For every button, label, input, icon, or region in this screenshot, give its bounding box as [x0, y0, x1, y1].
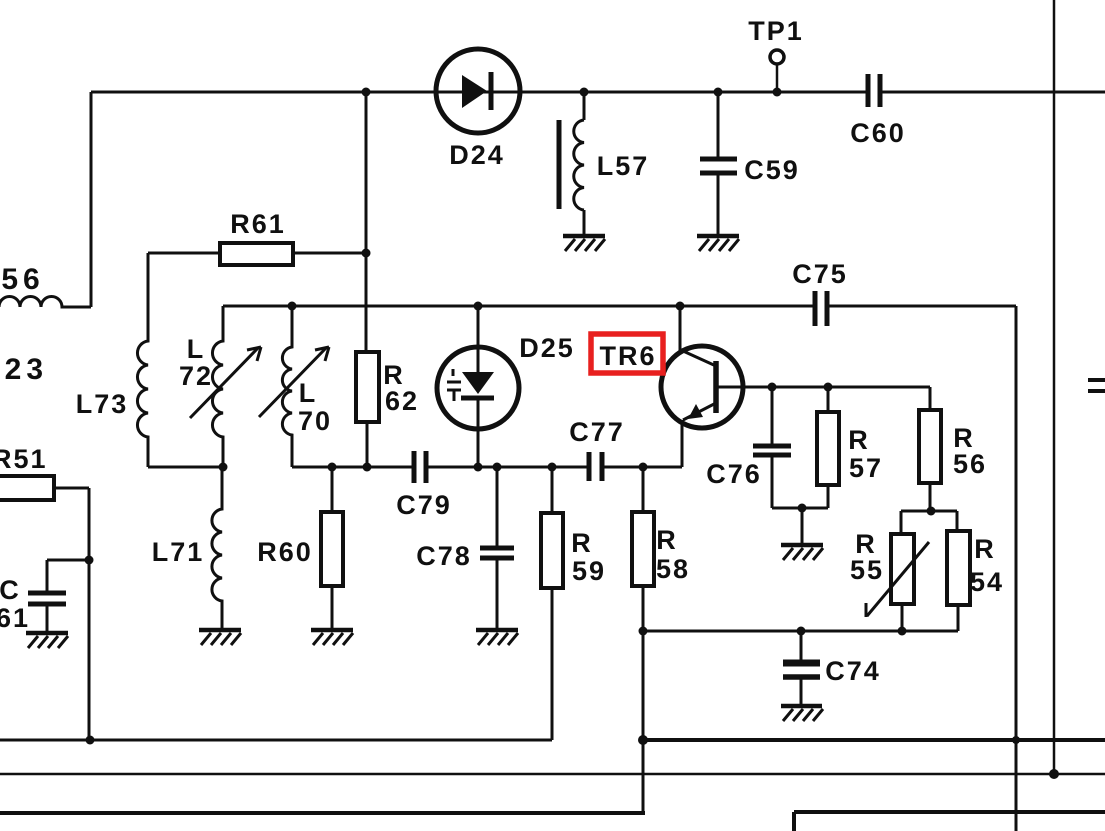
- inductor L71: [212, 467, 222, 628]
- svg-text:57: 57: [849, 453, 883, 483]
- capacitor C79: [414, 451, 426, 483]
- svg-text:C79: C79: [396, 490, 452, 520]
- wire R55 top lead: [900, 511, 903, 534]
- svg-text:D25: D25: [519, 333, 575, 363]
- capacitor C74: [783, 631, 820, 704]
- resistor R61: [220, 243, 293, 265]
- diode D25: [437, 306, 519, 467]
- node tank bottom / L71: [219, 463, 228, 472]
- wire TR6 emitter: [681, 420, 684, 467]
- resistor R59: [541, 513, 563, 588]
- wire R61 right lead: [293, 252, 366, 255]
- node ground stem C76/R57: [798, 504, 807, 513]
- node R60 top: [328, 463, 337, 472]
- node R55 bottom: [898, 627, 907, 636]
- resistor R56: [919, 410, 941, 483]
- node C61 tap: [85, 556, 94, 565]
- wire R51 drop to bottom bus: [88, 488, 91, 740]
- inductor L56: [0, 297, 91, 308]
- capacitor C77: [589, 452, 602, 481]
- wire R55 bottom lead: [901, 604, 904, 631]
- wire R60 bottom lead: [331, 586, 334, 628]
- node TP1 on rail: [773, 88, 782, 97]
- svg-text:L57: L57: [597, 151, 650, 181]
- node R61 right: [362, 249, 371, 258]
- svg-text:55: 55: [850, 555, 884, 585]
- wire R57 top lead: [827, 387, 830, 412]
- wire oscillator top bus left of C75: [223, 305, 815, 308]
- node D25 top: [474, 302, 483, 311]
- svg-text:72: 72: [179, 361, 213, 391]
- wire bottom bus 1 right: [643, 738, 1105, 742]
- svg-text:R60: R60: [257, 537, 313, 567]
- wire bottom bus 2: [0, 773, 1105, 776]
- wire oscillator bottom bus L70 to C79: [292, 466, 414, 469]
- svg-text:C60: C60: [850, 118, 906, 148]
- svg-text:54: 54: [970, 567, 1004, 597]
- capacitor C61: [28, 560, 89, 631]
- svg-text:C76: C76: [706, 459, 762, 489]
- wire R59 bottom lead: [551, 588, 554, 740]
- wire ground stem: [801, 508, 804, 543]
- wire R54 top lead: [956, 511, 959, 531]
- svg-text:R: R: [571, 528, 593, 558]
- wire R62 bottom lead: [366, 422, 369, 467]
- resistor R62: [356, 352, 379, 422]
- node C78 top: [493, 463, 502, 472]
- ground C59: [697, 236, 739, 251]
- diode D24: [436, 49, 520, 133]
- svg-text:C74: C74: [825, 656, 881, 686]
- wire R51 lead: [54, 487, 89, 490]
- wire TR6 collector: [679, 306, 682, 352]
- wire outer right vertical: [1053, 0, 1056, 774]
- wire oscillator bottom bus C79 to C77: [426, 466, 589, 469]
- capacitor C60: [868, 74, 880, 107]
- wire C77 to emitter corner: [602, 466, 682, 469]
- svg-text:R61: R61: [230, 209, 286, 239]
- node C74 top: [797, 627, 806, 636]
- resistor R54: [947, 531, 970, 605]
- resistor R58: [632, 512, 654, 586]
- svg-text:58: 58: [656, 554, 690, 584]
- svg-text:59: 59: [572, 556, 606, 586]
- node outer right vertical on bus 2: [1049, 769, 1059, 779]
- resistor R57: [817, 412, 839, 485]
- ground R60: [311, 630, 353, 645]
- node R57 top: [824, 383, 833, 392]
- wire R55/R54 top tie: [901, 510, 957, 513]
- svg-text:C78: C78: [416, 541, 472, 571]
- node R51 on bus 1: [86, 736, 95, 745]
- inductor L73: [137, 253, 148, 467]
- svg-text:C75: C75: [792, 259, 848, 289]
- svg-text:D24: D24: [449, 140, 505, 170]
- node D25 bottom: [474, 463, 483, 472]
- svg-text:L: L: [299, 378, 318, 408]
- resistor R55: [891, 534, 914, 604]
- node R59 top: [548, 463, 557, 472]
- svg-text:62: 62: [385, 386, 419, 416]
- svg-text:TP1: TP1: [748, 16, 804, 46]
- ground L71: [199, 630, 241, 645]
- wire bottom right drop: [792, 812, 796, 831]
- capacitor C75: [815, 291, 827, 326]
- svg-text:R: R: [656, 525, 678, 555]
- wire right bus vertical: [1015, 306, 1018, 831]
- highlight box TR6: [591, 334, 663, 373]
- svg-text:D23: D23: [0, 353, 48, 386]
- ground C74: [781, 706, 823, 721]
- svg-text:C77: C77: [569, 417, 625, 447]
- partial component right edge: [1088, 380, 1105, 391]
- arrow R55 variable: [866, 542, 929, 617]
- svg-text:L: L: [187, 334, 206, 364]
- inductor L72: [212, 306, 223, 467]
- svg-text:70: 70: [298, 406, 332, 436]
- transistor TR6: [661, 346, 743, 428]
- wire C76 to R57 bottom: [772, 507, 828, 510]
- arrow L70 variable: [259, 347, 329, 417]
- node R55/R54 tie: [927, 507, 936, 516]
- wire bottom bus 3 right: [794, 810, 1105, 814]
- node L57 top: [580, 88, 589, 97]
- node R58/bus: [639, 627, 648, 636]
- svg-text:R51: R51: [0, 444, 48, 474]
- svg-text:L73: L73: [76, 389, 129, 419]
- wire R56 top lead: [929, 387, 932, 410]
- svg-text:R: R: [974, 534, 996, 564]
- wire R57 bottom lead: [827, 485, 830, 508]
- capacitor C76: [753, 387, 791, 508]
- wire left drop to L56: [90, 92, 93, 307]
- svg-text:61: 61: [0, 603, 30, 633]
- capacitor C59: [700, 92, 737, 234]
- arrow L72 variable: [190, 347, 261, 418]
- test point TP1: [770, 50, 784, 92]
- ground C61: [26, 633, 68, 648]
- wire R54 bottom lead: [957, 605, 960, 631]
- wire R60 top lead: [331, 467, 334, 512]
- svg-text:56: 56: [953, 449, 987, 479]
- ground C78: [476, 630, 518, 645]
- svg-text:L71: L71: [152, 537, 205, 567]
- wire top rail right of C60: [882, 91, 1105, 94]
- node C59 top: [714, 88, 723, 97]
- wire R58 top lead: [642, 467, 645, 512]
- node L70 top: [288, 302, 297, 311]
- svg-text:L56: L56: [0, 263, 45, 296]
- wire bottom bus 1 left: [0, 739, 552, 742]
- wire R58 bottom lead down to bottom bus: [642, 586, 645, 813]
- wire tank bottom left segment: [148, 466, 223, 469]
- ground C76/R57: [781, 545, 823, 560]
- wire TR6 base: [716, 386, 930, 389]
- svg-text:C59: C59: [744, 155, 800, 185]
- wire top rail left of C60: [91, 91, 866, 94]
- inductor L70: [282, 306, 292, 467]
- node C76 top: [768, 383, 777, 392]
- wire drop from top rail to R61: [365, 92, 368, 352]
- svg-text:TR6: TR6: [599, 341, 656, 371]
- node R58 on bus 1: [638, 735, 648, 745]
- wire bottom bus 3 left: [0, 811, 645, 815]
- capacitor C78: [480, 467, 514, 628]
- svg-text:C: C: [0, 575, 21, 605]
- wire oscillator top bus right of C75: [827, 305, 1016, 308]
- node R58 top: [639, 463, 648, 472]
- wire emitter bias bus: [643, 630, 958, 633]
- ground L57: [563, 236, 605, 251]
- resistor R60: [321, 512, 343, 586]
- node R62 bottom: [363, 463, 372, 472]
- svg-text:R: R: [848, 425, 870, 455]
- wire R56 bottom lead: [929, 483, 932, 511]
- resistor R51: [0, 476, 54, 500]
- node right bus crossing: [1012, 736, 1020, 744]
- wire R61 left lead: [148, 252, 220, 255]
- wire R59 top lead: [551, 467, 554, 513]
- node TR6 collector on bus: [676, 302, 685, 311]
- node top rail / R61 drop: [362, 88, 371, 97]
- inductor L57: [559, 92, 584, 234]
